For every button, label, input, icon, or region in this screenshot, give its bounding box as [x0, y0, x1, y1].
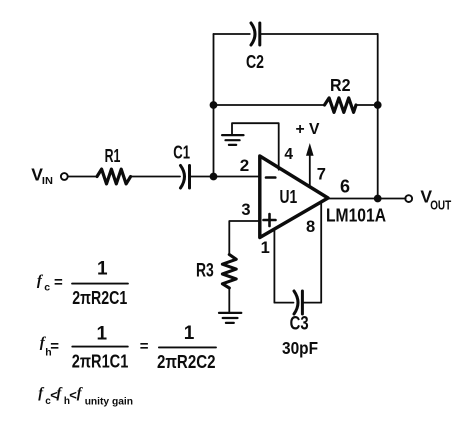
wire node A up feedback branch: [213, 34, 215, 177]
svg-text:1: 1: [261, 239, 270, 257]
formula fh = 1/(2piR1C1) = 1/(2piR2C2): [40, 323, 216, 372]
wire R3 to ground: [228, 288, 230, 313]
wire apex to output terminal: [328, 198, 406, 200]
svg-text:=: =: [54, 274, 63, 291]
svg-text:2: 2: [240, 156, 249, 175]
svg-text:C1: C1: [173, 141, 190, 162]
junction output node: [374, 195, 382, 203]
junction node left of R2: [210, 101, 218, 109]
+V supply arrow (pin 7): [309, 153, 311, 188]
input terminal Vin: [61, 173, 68, 180]
svg-text:=: =: [140, 338, 149, 355]
svg-text:8: 8: [306, 218, 315, 236]
svg-text:c: c: [44, 282, 50, 294]
svg-text:R1: R1: [105, 145, 121, 166]
svg-text:C3: C3: [290, 314, 309, 335]
svg-text:1: 1: [184, 323, 195, 344]
inverting input minus sign: [266, 176, 275, 179]
svg-text:R2: R2: [330, 75, 351, 95]
wire R2 branch left: [214, 104, 325, 106]
pin 8 wire: [320, 202, 322, 302]
wire pin 3 to R3: [229, 221, 259, 255]
wire C1 to op-amp pin 2: [190, 176, 260, 178]
svg-text:LM101A: LM101A: [326, 205, 386, 226]
junction node A (C1 / feedback / pin 2): [210, 173, 218, 181]
wire C3 bottom loop: [274, 302, 321, 304]
svg-text:OUT: OUT: [430, 198, 451, 213]
svg-text:R3: R3: [196, 261, 214, 282]
ground (R3): [219, 313, 241, 323]
resistor R3: [222, 255, 236, 289]
op-amp U1 triangle: [260, 156, 328, 238]
svg-text:2πR2C1: 2πR2C1: [72, 288, 127, 308]
non-inverting input plus sign: [264, 214, 276, 226]
svg-text:2πR1C1: 2πR1C1: [72, 352, 129, 372]
svg-text:+ V: + V: [296, 121, 320, 138]
ground (pin 4): [222, 135, 243, 145]
capacitor C2: [251, 23, 260, 45]
wire R1 to C1: [131, 176, 180, 178]
svg-text:IN: IN: [42, 175, 53, 187]
Vin label: [31, 164, 53, 187]
formula fc = 1/(2piR2C1): [37, 258, 127, 308]
svg-text:U1: U1: [280, 186, 298, 207]
capacitor C3: [294, 291, 302, 314]
junction node right of R2: [374, 101, 382, 109]
formula inequality fc < fh < f unity gain: [38, 386, 133, 408]
svg-text:6: 6: [340, 177, 350, 197]
svg-text:3: 3: [241, 201, 250, 219]
svg-text:4: 4: [284, 146, 293, 163]
pin 1 wire: [273, 229, 275, 303]
svg-text:7: 7: [317, 166, 326, 184]
wire top C2 branch: [214, 33, 378, 35]
wire R2 to right node: [356, 104, 378, 106]
wire Vin terminal to R1: [68, 176, 97, 178]
svg-text:1: 1: [97, 258, 108, 279]
pin 4 wire to ground: [232, 123, 279, 170]
svg-text:2πR2C2: 2πR2C2: [157, 352, 216, 372]
output terminal Vout: [405, 195, 412, 202]
Vout label: [420, 187, 451, 213]
svg-text:=: =: [50, 338, 59, 355]
svg-text:30pF: 30pF: [282, 338, 318, 358]
resistor R2: [325, 98, 357, 112]
capacitor C1: [181, 166, 190, 189]
resistor R1: [97, 169, 131, 184]
wire right vertical feedback to output node: [377, 34, 379, 199]
svg-text:unity gain: unity gain: [85, 396, 133, 408]
svg-text:1: 1: [97, 323, 108, 344]
svg-text:C2: C2: [246, 51, 264, 72]
